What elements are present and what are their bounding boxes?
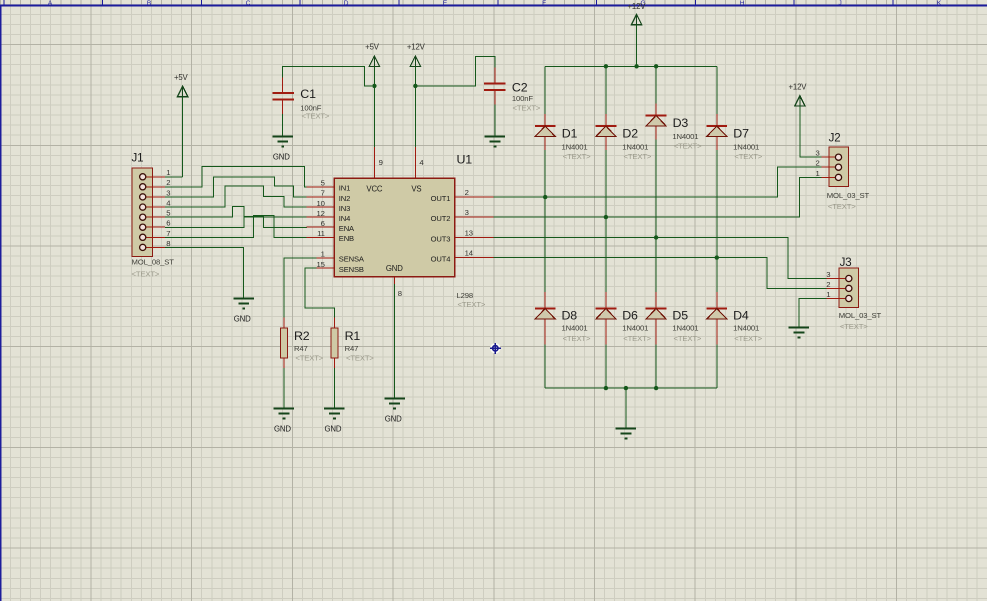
- svg-text:1N4001: 1N4001: [562, 143, 588, 152]
- svg-text:D3: D3: [673, 116, 689, 130]
- wire D5 to bottom rail: [655, 345, 657, 389]
- svg-text:1N4001: 1N4001: [672, 132, 698, 141]
- junction D3 column OUT row: [654, 235, 658, 239]
- svg-text:<TEXT>: <TEXT>: [674, 334, 702, 343]
- wire J3 pin1 to ground: [799, 299, 827, 328]
- wire +12V stem to top rail: [636, 25, 638, 67]
- wire D7 to OUT row to D4: [716, 150, 718, 292]
- wire J1.2 to U1.IN1: [165, 167, 307, 187]
- wire OUT1 to J2 pin2: [493, 167, 821, 197]
- power +12V (J2): [788, 83, 807, 106]
- junction +5V/C1: [372, 84, 376, 88]
- svg-text:2: 2: [815, 159, 819, 168]
- svg-text:1: 1: [321, 250, 325, 259]
- svg-text:D4: D4: [733, 309, 749, 323]
- svg-text:<TEXT>: <TEXT>: [624, 152, 652, 161]
- ground (J3): [789, 328, 810, 338]
- wire R2 to ground: [283, 368, 285, 408]
- wire J1 pin1 to +5V: [165, 97, 183, 177]
- wire rail to diode D3: [655, 66, 657, 103]
- connector J1 (MOL_08_ST): [132, 168, 172, 258]
- diode D7 1N4001: [706, 114, 727, 150]
- svg-text:1N4001: 1N4001: [733, 143, 759, 152]
- capacitor C2 100nF: [484, 68, 506, 105]
- svg-text:D8: D8: [562, 309, 578, 323]
- svg-text:2: 2: [826, 280, 830, 289]
- svg-text:<TEXT>: <TEXT>: [623, 334, 651, 343]
- svg-text:D2: D2: [622, 127, 638, 141]
- svg-text:U1: U1: [457, 152, 473, 166]
- svg-text:13: 13: [465, 228, 473, 237]
- diode D1 1N4001: [535, 114, 556, 150]
- ground (R2): [274, 409, 295, 434]
- wire +12V to U1 VS: [414, 66, 416, 147]
- svg-text:GND: GND: [274, 425, 291, 434]
- svg-text:MOL_03_ST: MOL_03_ST: [839, 311, 882, 320]
- power +5V (J1): [174, 73, 189, 97]
- svg-text:R47: R47: [294, 344, 308, 353]
- svg-text:3: 3: [815, 149, 819, 158]
- junction +12V/C2: [413, 84, 417, 88]
- wire J1.6 to U1.ENA: [165, 216, 307, 227]
- svg-text:1: 1: [815, 169, 819, 178]
- diode D2 1N4001: [596, 114, 617, 150]
- svg-text:2: 2: [465, 188, 469, 197]
- svg-text:GND: GND: [234, 315, 251, 324]
- wire J1.3 to U1.IN2: [165, 177, 307, 197]
- U1 left pin names: [339, 184, 365, 274]
- svg-text:+5V: +5V: [174, 73, 189, 82]
- U1 right pin stubs OUT1-OUT4: [456, 197, 494, 258]
- svg-text:OUT1: OUT1: [431, 194, 451, 203]
- svg-text:5: 5: [166, 209, 170, 218]
- U1 OUT pin names: [431, 194, 451, 264]
- svg-text:10: 10: [317, 199, 325, 208]
- ground (C2): [485, 137, 506, 147]
- svg-text:8: 8: [166, 239, 170, 248]
- ground (motor rail): [616, 429, 637, 439]
- svg-text:VS: VS: [411, 184, 421, 193]
- U1 bottom pin stub 8: [394, 278, 396, 284]
- svg-text:OUT2: OUT2: [431, 214, 451, 223]
- svg-text:GND: GND: [385, 414, 402, 423]
- svg-text:<TEXT>: <TEXT>: [734, 152, 762, 161]
- wire U1 GND pin to ground: [394, 284, 396, 398]
- svg-text:<TEXT>: <TEXT>: [132, 269, 160, 278]
- svg-text:<TEXT>: <TEXT>: [840, 322, 868, 331]
- wire D4 to bottom rail: [716, 345, 718, 389]
- wire J1.4 to U1.IN3: [165, 186, 307, 207]
- svg-text:14: 14: [465, 249, 474, 258]
- wire +5V to U1 VCC: [373, 66, 375, 147]
- svg-text:<TEXT>: <TEXT>: [295, 353, 323, 362]
- wire rail to diode D7: [716, 66, 718, 114]
- svg-text:L298: L298: [457, 291, 474, 300]
- wire C2 bottom to ground: [494, 105, 496, 137]
- junction bottom rail D6: [604, 386, 608, 390]
- wire top +12V rail: [545, 65, 717, 67]
- svg-text:<TEXT>: <TEXT>: [563, 152, 591, 161]
- svg-text:GND: GND: [273, 153, 290, 162]
- power +5V (VCC): [365, 43, 380, 67]
- svg-text:MOL_08_ST: MOL_08_ST: [132, 258, 175, 267]
- resistor R2 R47: [280, 317, 288, 368]
- svg-text:SENSB: SENSB: [339, 265, 364, 274]
- svg-text:3: 3: [166, 188, 170, 197]
- wire C1 top to +5V rail: [283, 66, 373, 86]
- diode D8 1N4001: [535, 292, 556, 345]
- ground (C1): [272, 137, 293, 162]
- svg-text:1N4001: 1N4001: [622, 143, 648, 152]
- svg-text:12: 12: [317, 209, 325, 218]
- diode D3 1N4001: [646, 103, 667, 139]
- wire +12V to J2 pin3: [800, 106, 821, 157]
- wire OUT4 to J3 pin2: [493, 258, 826, 289]
- U1 top pin stubs 9 and 4: [375, 147, 416, 177]
- ground (below J1): [233, 299, 254, 324]
- svg-text:<TEXT>: <TEXT>: [734, 334, 762, 343]
- origin marker: [490, 343, 501, 354]
- svg-text:<TEXT>: <TEXT>: [828, 202, 856, 211]
- svg-text:ENB: ENB: [339, 234, 354, 243]
- wire C1 bottom to ground: [282, 114, 284, 136]
- svg-text:J3: J3: [840, 257, 852, 269]
- diode D6 1N4001: [596, 292, 617, 345]
- capacitor C1 100nF: [273, 78, 295, 115]
- U1 VCC VS GND pin names: [366, 184, 421, 273]
- svg-text:15: 15: [317, 260, 325, 269]
- svg-text:<TEXT>: <TEXT>: [563, 334, 591, 343]
- wire J1.8 to ground: [165, 247, 244, 297]
- svg-text:D6: D6: [622, 309, 638, 323]
- connector J2 (MOL_03_ST): [815, 147, 849, 188]
- junction D7 column OUT row: [715, 255, 719, 259]
- wire R1 to ground: [333, 368, 335, 408]
- svg-text:J1: J1: [132, 153, 144, 165]
- svg-text:5: 5: [321, 179, 325, 188]
- wire rail to diode D2: [605, 66, 607, 114]
- svg-text:GND: GND: [386, 264, 403, 273]
- resistor R1 R47: [331, 317, 339, 368]
- junction D2 column OUT row: [604, 215, 608, 219]
- svg-text:R2: R2: [294, 329, 310, 343]
- svg-text:1N4001: 1N4001: [672, 323, 698, 332]
- wire +12V to C2: [418, 57, 495, 86]
- svg-text:+12V: +12V: [627, 2, 646, 11]
- svg-text:3: 3: [465, 208, 469, 217]
- svg-text:<TEXT>: <TEXT>: [513, 103, 541, 112]
- wire bottom rail: [545, 387, 717, 389]
- U1 left pin stubs: [307, 187, 334, 268]
- junction top rail D2: [604, 64, 608, 68]
- wire D3 to OUT row to D5: [655, 140, 657, 292]
- diode D4 1N4001: [706, 292, 727, 345]
- junction bottom rail GND stem: [624, 386, 628, 390]
- svg-text:+5V: +5V: [365, 43, 380, 52]
- svg-text:<TEXT>: <TEXT>: [458, 300, 486, 309]
- wire OUT2 to J2 pin1: [493, 177, 821, 217]
- svg-text:C2: C2: [512, 81, 528, 95]
- junction top rail +12V: [634, 64, 638, 68]
- wire J1.5 to U1.IN4: [165, 206, 307, 217]
- power +12V (diode rail): [627, 2, 646, 25]
- junction D1 column OUT row: [543, 195, 547, 199]
- svg-text:1N4001: 1N4001: [733, 323, 759, 332]
- svg-text:+12V: +12V: [788, 83, 807, 92]
- svg-text:SENSA: SENSA: [339, 255, 365, 264]
- wire J1.7 to U1.ENB: [165, 215, 307, 237]
- wire D1 to OUT row to D8: [544, 150, 546, 292]
- svg-text:C1: C1: [300, 87, 316, 101]
- wire U1 SENSA to R2: [284, 258, 317, 318]
- svg-text:D5: D5: [672, 309, 688, 323]
- svg-text:2: 2: [166, 178, 170, 187]
- ground (R1): [324, 409, 345, 434]
- svg-text:1: 1: [826, 290, 830, 299]
- U1 right pin numbers: [465, 188, 474, 258]
- svg-text:1: 1: [166, 168, 170, 177]
- ground (U1 pin 8): [384, 399, 405, 424]
- svg-text:R1: R1: [345, 329, 361, 343]
- junction top rail D3: [654, 64, 658, 68]
- svg-text:D1: D1: [562, 127, 578, 141]
- wire D8 to bottom rail: [544, 345, 546, 389]
- svg-text:6: 6: [166, 219, 170, 228]
- wire OUT3 to J3 pin3: [493, 238, 826, 279]
- svg-text:1N4001: 1N4001: [622, 323, 648, 332]
- svg-text:IN1: IN1: [339, 184, 350, 193]
- IC U1 L298 body: [334, 178, 456, 278]
- wire bottom rail to ground: [625, 388, 627, 428]
- svg-text:J2: J2: [829, 133, 841, 145]
- junction bottom rail D5: [654, 386, 658, 390]
- svg-text:GND: GND: [324, 425, 341, 434]
- svg-text:7: 7: [166, 229, 170, 238]
- svg-text:7: 7: [321, 189, 325, 198]
- svg-text:MOL_03_ST: MOL_03_ST: [827, 191, 870, 200]
- svg-text:100nF: 100nF: [512, 94, 534, 103]
- diode D5 1N4001: [646, 292, 667, 345]
- svg-text:IN4: IN4: [339, 214, 350, 223]
- svg-text:<TEXT>: <TEXT>: [346, 353, 374, 362]
- connector J3 (MOL_03_ST): [826, 268, 859, 309]
- svg-text:+12V: +12V: [407, 43, 426, 52]
- svg-text:VCC: VCC: [366, 184, 383, 193]
- svg-text:IN3: IN3: [339, 204, 350, 213]
- power +12V (VS): [407, 43, 426, 67]
- svg-text:D7: D7: [733, 127, 749, 141]
- wire rail to diode D1: [544, 66, 546, 114]
- svg-text:3: 3: [826, 270, 830, 279]
- svg-text:<TEXT>: <TEXT>: [302, 112, 330, 121]
- svg-text:IN2: IN2: [339, 194, 350, 203]
- svg-text:OUT4: OUT4: [431, 254, 451, 263]
- svg-text:OUT3: OUT3: [431, 234, 451, 243]
- svg-text:11: 11: [317, 229, 325, 238]
- svg-text:R47: R47: [345, 344, 359, 353]
- U1 left pin numbers: [317, 179, 325, 269]
- svg-text:9: 9: [379, 158, 383, 167]
- svg-text:6: 6: [321, 219, 325, 228]
- wire U1 SENSB to R1: [305, 268, 335, 317]
- svg-text:1N4001: 1N4001: [562, 323, 588, 332]
- svg-text:ENA: ENA: [339, 224, 355, 233]
- wire D2 to OUT row to D6: [605, 150, 607, 292]
- svg-text:8: 8: [398, 289, 402, 298]
- wire D6 to bottom rail: [605, 345, 607, 389]
- svg-text:<TEXT>: <TEXT>: [674, 142, 702, 151]
